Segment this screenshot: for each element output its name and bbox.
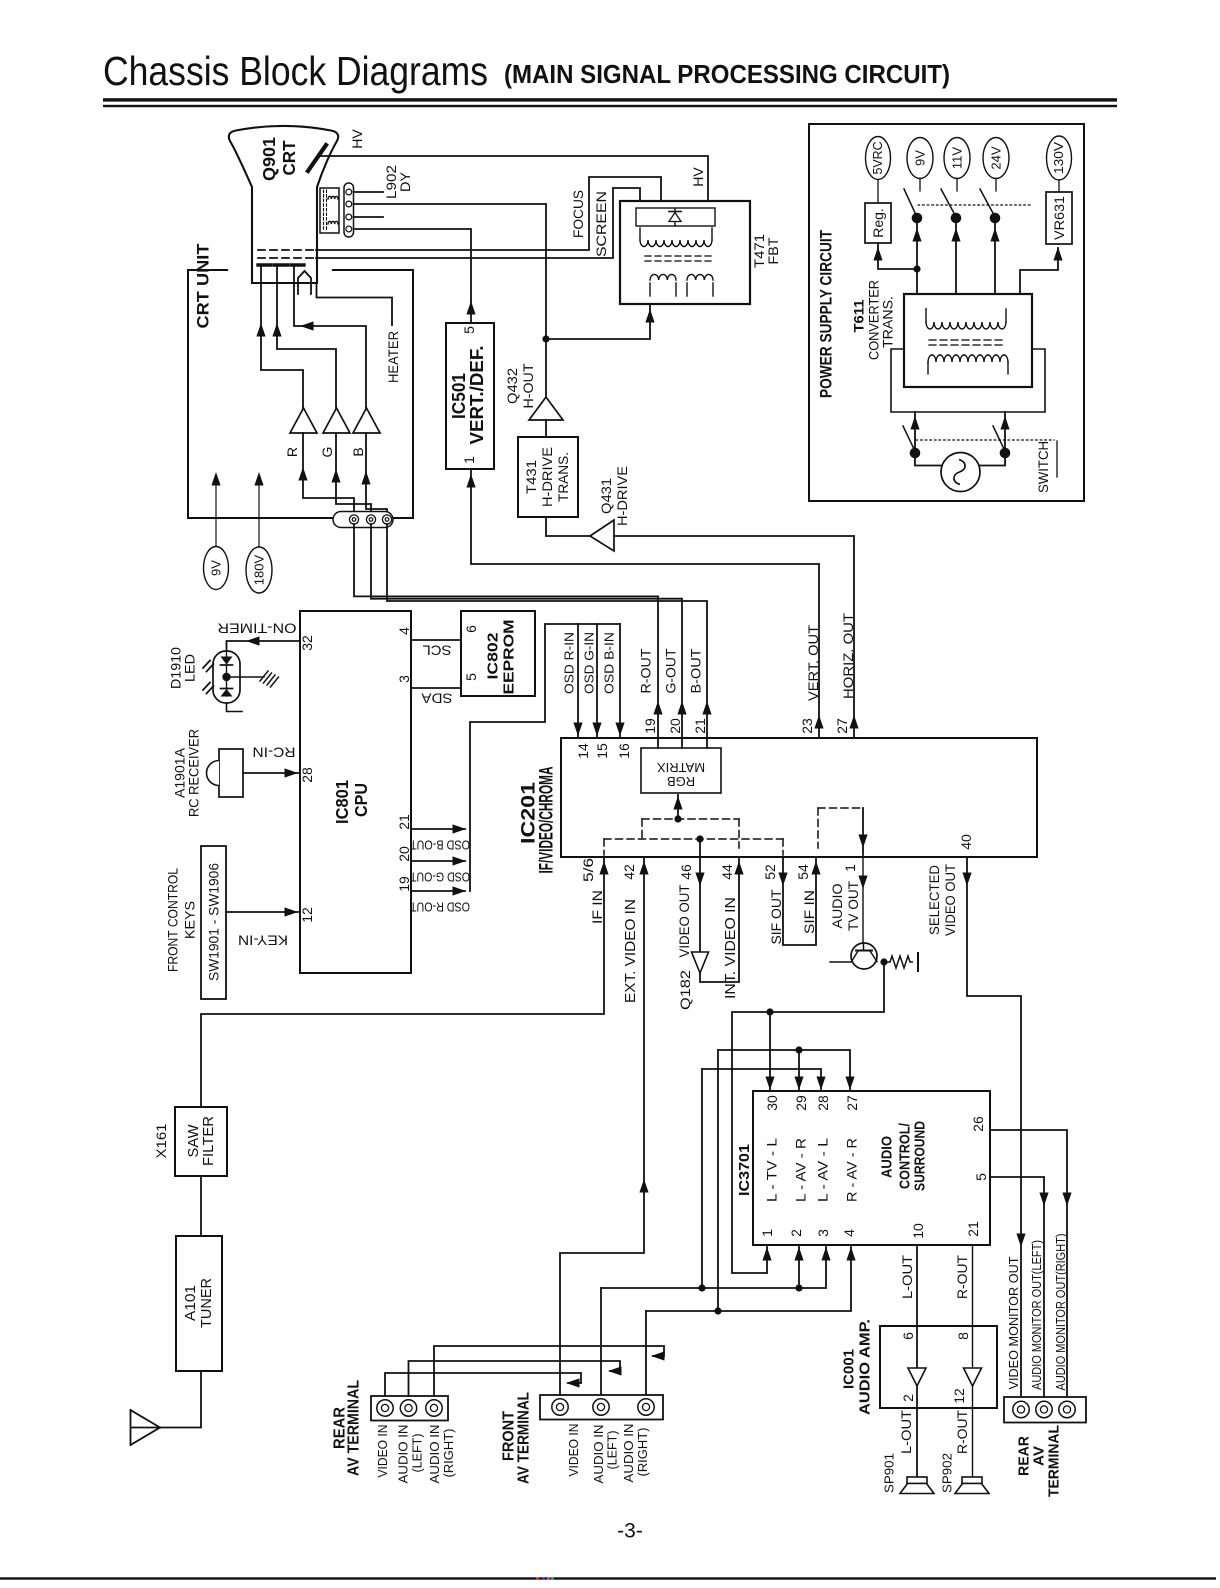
wire amp B input from socket — [366, 433, 387, 513]
svg-text:44: 44 — [719, 864, 735, 880]
wire ON-TIMER from CPU pin32 to LED — [227, 641, 301, 651]
svg-text:RC RECEIVER: RC RECEIVER — [187, 729, 202, 817]
wire junction to FBT input — [546, 304, 650, 339]
svg-text:SP901: SP901 — [882, 1453, 897, 1493]
switch gang dotted link — [918, 204, 1030, 206]
A101 TUNER box — [176, 1236, 222, 1371]
svg-text:H-DRIVE: H-DRIVE — [539, 447, 555, 507]
svg-text:L - AV - L: L - AV - L — [816, 1137, 831, 1202]
wire pin21 R-OUT to IC001 — [972, 1245, 974, 1477]
svg-text:B-OUT: B-OUT — [689, 649, 704, 694]
svg-text:TRANS.: TRANS. — [881, 296, 896, 348]
T611 secondary winding — [925, 309, 927, 322]
svg-text:R - AV - R: R - AV - R — [845, 1138, 860, 1202]
svg-text:2: 2 — [788, 1229, 804, 1237]
wire OSD R-OUT CPU pin19 — [411, 890, 465, 892]
title double rule — [103, 98, 1117, 101]
svg-text:SCL: SCL — [422, 643, 452, 658]
svg-text:27: 27 — [834, 718, 850, 734]
front video jack — [552, 1399, 568, 1415]
wire OSD G-OUT CPU pin20 — [411, 860, 465, 862]
wire pin10 L-OUT to IC001 — [916, 1245, 918, 1477]
wire OSD R-IN drop to IC201 pin14 — [577, 624, 579, 738]
yoke coil top — [328, 196, 338, 199]
video monitor jack — [1013, 1401, 1029, 1417]
svg-text:12: 12 — [951, 1388, 967, 1404]
node 11V out — [944, 138, 970, 179]
wire branch pin29 — [798, 1050, 800, 1090]
svg-text:21: 21 — [396, 814, 412, 830]
AC source — [941, 453, 980, 492]
svg-text:54: 54 — [795, 864, 811, 880]
svg-text:AUDIO: AUDIO — [879, 1136, 896, 1178]
svg-text:AV TERMINAL: AV TERMINAL — [346, 1380, 363, 1476]
antenna — [130, 1410, 132, 1445]
svg-text:EXT. VIDEO IN: EXT. VIDEO IN — [623, 899, 639, 1003]
wire regulator input from 9V rail — [878, 243, 917, 269]
svg-text:SAW: SAW — [186, 1124, 202, 1157]
chassis ground hatch — [260, 671, 268, 681]
FBT secondary coil B — [686, 283, 688, 296]
wire 24V from transformer — [994, 218, 996, 294]
wire yoke pin1 stub — [354, 191, 384, 193]
wire audio tv out to Q transistor — [862, 857, 864, 948]
svg-text:24V: 24V — [989, 146, 1004, 169]
wire audio R lower bus — [646, 1247, 851, 1311]
svg-text:L-OUT: L-OUT — [898, 1410, 914, 1454]
node emitter junction — [880, 958, 887, 965]
wire branch to IC3701 pin30 — [769, 1012, 771, 1090]
svg-text:46: 46 — [678, 864, 694, 880]
transformer T611 box — [904, 294, 1032, 387]
wire OSD G-IN drop to IC201 pin15 — [596, 624, 598, 738]
svg-text:VIDEO OUT: VIDEO OUT — [676, 884, 692, 957]
svg-text:T431: T431 — [523, 460, 539, 494]
FBT primary coil — [639, 228, 641, 240]
video amp B — [353, 408, 380, 433]
svg-text:FBT: FBT — [765, 237, 781, 264]
wire HV anode to FBT — [318, 156, 708, 201]
svg-text:12: 12 — [299, 907, 315, 923]
svg-text:SW1901 - SW1906: SW1901 - SW1906 — [207, 863, 222, 981]
wire AV-R net top — [718, 1050, 850, 1090]
yoke coil bottom — [328, 221, 338, 224]
transistor Q431 H-DRIVE — [590, 520, 614, 551]
CRT screen electrode dashes — [258, 257, 316, 259]
svg-text:180V: 180V — [252, 554, 267, 585]
svg-text:SELECTED: SELECTED — [926, 865, 942, 935]
svg-text:KEYS: KEYS — [183, 901, 198, 939]
svg-text:(RIGHT): (RIGHT) — [636, 1428, 650, 1477]
svg-text:Reg.: Reg. — [870, 208, 886, 238]
svg-text:19: 19 — [642, 718, 658, 734]
svg-text:5/6: 5/6 — [580, 858, 596, 882]
wire video out to Q182 — [699, 857, 701, 952]
svg-text:21: 21 — [692, 718, 708, 734]
wire R cathode from amp — [261, 265, 303, 433]
node junction AV-L — [698, 1284, 705, 1291]
svg-text:G: G — [319, 447, 335, 458]
transistor Q182 emitter follower — [692, 952, 709, 973]
wire KEY-IN to CPU pin12 — [226, 911, 300, 913]
svg-text:IF IN: IF IN — [589, 890, 605, 924]
svg-text:AUDIO: AUDIO — [829, 883, 845, 928]
wire yoke drive junction to Q432 — [545, 204, 547, 397]
svg-text:-3-: -3- — [617, 1520, 643, 1543]
svg-text:SWITCH: SWITCH — [1035, 441, 1051, 493]
rear AV terminal box — [371, 1396, 448, 1421]
svg-text:AUDIO IN: AUDIO IN — [592, 1425, 606, 1484]
node junction pin2 — [795, 1284, 802, 1291]
svg-text:AUDIO MONITOR OUT(LEFT): AUDIO MONITOR OUT(LEFT) — [1030, 1240, 1044, 1390]
wire B-OUT to socket — [387, 524, 707, 748]
wire G cathode from amp — [277, 265, 336, 433]
LED diode down — [221, 657, 233, 665]
svg-text:30: 30 — [764, 1095, 780, 1111]
svg-text:AUDIO IN: AUDIO IN — [428, 1425, 442, 1484]
wire focus to FBT — [316, 177, 661, 250]
svg-text:AUDIO MONITOR OUT(RIGHT): AUDIO MONITOR OUT(RIGHT) — [1054, 1234, 1068, 1391]
svg-text:(RIGHT): (RIGHT) — [442, 1429, 456, 1478]
SWITCH label line — [1056, 441, 1058, 477]
LED diode up — [221, 688, 233, 690]
svg-text:Chassis Block Diagrams: Chassis Block Diagrams — [103, 48, 488, 94]
T611 core — [929, 339, 936, 341]
svg-text:SCREEN: SCREEN — [593, 191, 609, 257]
svg-text:FOCUS: FOCUS — [570, 190, 586, 238]
wire 130V to VR631 — [1058, 180, 1060, 192]
svg-text:6: 6 — [463, 625, 479, 633]
svg-text:FILTER: FILTER — [201, 1116, 217, 1166]
rear audio L jack — [400, 1400, 416, 1416]
svg-text:19: 19 — [396, 876, 412, 892]
svg-text:SP902: SP902 — [940, 1453, 955, 1493]
wire 9V rail from transformer — [916, 218, 918, 294]
wire OSD B-OUT CPU pin21 — [411, 828, 465, 830]
switch mains right — [993, 426, 1005, 450]
front control keys SW1901-SW1906 box — [201, 846, 226, 999]
svg-text:L-OUT: L-OUT — [899, 1255, 915, 1299]
wire AC to right switch — [979, 453, 1005, 466]
node junction AV-R — [714, 1307, 721, 1314]
deflection yoke L902 body — [320, 188, 339, 233]
svg-text:H-OUT: H-OUT — [520, 363, 536, 408]
transistor audio TV out buffer — [851, 943, 877, 969]
video amp G — [323, 408, 350, 433]
CRT focus electrode dashes — [258, 249, 316, 251]
wire OSD B-IN drop to IC201 pin16 — [619, 624, 621, 738]
svg-text:VIDEO IN: VIDEO IN — [376, 1425, 390, 1478]
wire audio L lower bus — [601, 1247, 826, 1288]
svg-text:CONVERTER: CONVERTER — [867, 280, 882, 360]
svg-text:TUNER: TUNER — [199, 1278, 215, 1328]
wire rear audio L to front audio L net — [409, 1361, 621, 1396]
svg-text:EEPROM: EEPROM — [501, 620, 518, 695]
svg-text:11V: 11V — [950, 147, 965, 169]
amp R triangle — [964, 1368, 982, 1386]
svg-text:32: 32 — [299, 635, 315, 651]
svg-text:H-DRIVE: H-DRIVE — [614, 466, 630, 526]
svg-text:4: 4 — [396, 627, 412, 635]
FBT core dashes — [645, 255, 651, 257]
svg-text:10: 10 — [910, 1223, 926, 1239]
VR631 box — [1046, 192, 1072, 244]
wire rear audio R to front audio R net — [434, 1346, 664, 1396]
svg-text:VR631: VR631 — [1051, 196, 1067, 240]
wire LED cathode stub — [227, 703, 243, 712]
svg-text:4: 4 — [841, 1229, 857, 1237]
svg-text:42: 42 — [621, 864, 637, 880]
svg-text:9V: 9V — [209, 560, 224, 576]
wire EXT VIDEO IN from front AV video jack — [560, 857, 644, 1395]
svg-text:130V: 130V — [1052, 141, 1066, 174]
wire G-OUT to socket — [371, 524, 682, 748]
svg-text:26: 26 — [970, 1116, 986, 1132]
front audio L jack — [593, 1399, 609, 1415]
switch gang dotted link mains — [916, 439, 1054, 441]
wire RC-IN to CPU pin28 — [243, 772, 300, 774]
wire yoke pin2 vertical deflection feed — [354, 203, 547, 205]
svg-text:CPU: CPU — [351, 783, 371, 817]
svg-text:Q182: Q182 — [677, 970, 693, 1010]
transistor Q432 H-OUT amp — [529, 397, 563, 420]
svg-text:20: 20 — [667, 718, 683, 734]
arrow into IC501 pin5 — [466, 301, 475, 315]
svg-text:OSD R-IN: OSD R-IN — [562, 632, 577, 694]
svg-text:IF/VIDEO/CHROMA: IF/VIDEO/CHROMA — [537, 766, 558, 873]
wire rear video to front video net — [385, 1373, 581, 1396]
svg-text:L - AV - R: L - AV - R — [794, 1138, 809, 1202]
rear video jack — [377, 1400, 393, 1416]
wire Q432 to T431 — [545, 420, 547, 437]
node junction to RGB matrix — [674, 815, 681, 822]
wire AC to left switch — [915, 453, 942, 466]
wire antenna to tuner — [131, 1371, 202, 1428]
svg-text:AUDIO IN: AUDIO IN — [397, 1425, 411, 1484]
wire selected video out to rear monitor jack — [967, 857, 1021, 1397]
svg-text:OSD R-OUT: OSD R-OUT — [410, 900, 470, 915]
IC801 CPU box — [300, 611, 411, 973]
svg-text:D1910: D1910 — [169, 647, 184, 689]
CRT UNIT enclosure box — [188, 270, 413, 518]
switch mains left — [903, 426, 915, 450]
svg-text:RC-IN: RC-IN — [253, 745, 296, 760]
wire pin5 audio monitor left — [990, 1177, 1044, 1397]
T611 primary winding — [928, 355, 1008, 362]
wire into RGB matrix — [677, 795, 679, 819]
wire screen to FBT — [316, 188, 640, 258]
svg-text:A101: A101 — [183, 1285, 199, 1321]
svg-text:3: 3 — [815, 1229, 831, 1237]
svg-text:OSD B-IN: OSD B-IN — [602, 632, 617, 694]
svg-text:20: 20 — [396, 846, 412, 862]
svg-text:9V: 9V — [913, 150, 928, 166]
svg-text:OSD G-OUT: OSD G-OUT — [410, 870, 470, 885]
wire 180V into CRT unit — [258, 477, 260, 546]
speaker SP901 — [907, 1477, 927, 1484]
svg-text:VIDEO MONITOR OUT: VIDEO MONITOR OUT — [1007, 1256, 1021, 1389]
svg-text:R-OUT: R-OUT — [954, 1255, 970, 1299]
speaker SP902 — [962, 1477, 982, 1484]
wire R-OUT to socket — [354, 524, 658, 748]
wire TV audio to IC3701 — [732, 962, 884, 1273]
wire OSD bus — [470, 624, 620, 891]
wire IC501 pin1 vert out to IC201 pin23 — [471, 469, 819, 738]
wire 11V from transformer — [955, 218, 957, 294]
svg-text:IC3701: IC3701 — [737, 1144, 753, 1196]
FBT diode block — [636, 208, 715, 226]
svg-text:ON-TIMER: ON-TIMER — [217, 621, 296, 636]
switch SW 24V — [995, 179, 997, 192]
wire front audio L jack up — [600, 1288, 602, 1395]
svg-text:HORIZ. OUT: HORIZ. OUT — [840, 613, 856, 699]
CRT cathode stubs R G B — [258, 263, 271, 266]
wire horiz out from IC201 pin27 to Q431 — [614, 536, 854, 738]
LED light ticks — [203, 661, 210, 669]
svg-text:HV: HV — [349, 129, 365, 149]
IC501 vertical deflection IC — [446, 323, 494, 469]
svg-text:5: 5 — [461, 326, 477, 334]
front AV terminal box — [540, 1395, 663, 1420]
svg-text:VIDEO OUT: VIDEO OUT — [942, 864, 958, 936]
svg-text:15: 15 — [594, 743, 610, 759]
resistor end terminal — [917, 953, 919, 971]
svg-text:TERMINAL: TERMINAL — [1046, 1425, 1063, 1497]
node junction TV audio — [766, 1008, 773, 1015]
svg-text:21: 21 — [965, 1221, 981, 1237]
audio monitor R jack — [1059, 1401, 1075, 1417]
svg-text:23: 23 — [799, 718, 815, 734]
flyback transformer T471 box — [620, 201, 750, 304]
LED centre node — [222, 673, 230, 681]
power supply circuit enclosure — [809, 124, 1084, 501]
video amp R — [290, 408, 317, 433]
FBT secondary coil A — [649, 283, 651, 296]
node junction video out — [696, 835, 703, 842]
wire yoke pin4 to IC501 pin5 — [354, 229, 472, 323]
svg-text:OSD B-OUT: OSD B-OUT — [410, 838, 470, 853]
svg-text:14: 14 — [575, 743, 591, 759]
front audio R jack — [638, 1399, 654, 1415]
svg-text:CRT UNIT: CRT UNIT — [194, 243, 213, 329]
svg-text:1: 1 — [759, 1229, 775, 1237]
svg-text:OSD G-IN: OSD G-IN — [582, 632, 597, 694]
RC receiver A1901A body — [219, 749, 243, 797]
svg-text:IC802: IC802 — [485, 633, 502, 680]
IC001 AUDIO AMP box — [880, 1326, 997, 1408]
svg-text:8: 8 — [955, 1332, 971, 1340]
svg-text:G-OUT: G-OUT — [664, 649, 679, 694]
svg-text:28: 28 — [299, 767, 315, 783]
svg-text:(MAIN SIGNAL PROCESSING CIRCUI: (MAIN SIGNAL PROCESSING CIRCUIT) — [504, 61, 950, 89]
svg-text:Q432: Q432 — [504, 368, 520, 404]
node 180V supply — [246, 547, 272, 593]
svg-text:A1901A: A1901A — [173, 748, 188, 798]
CRT socket connector — [333, 512, 393, 528]
svg-text:DY: DY — [397, 171, 413, 192]
node junction pin29 — [795, 1046, 802, 1053]
svg-text:HV: HV — [690, 167, 706, 187]
wire Q182 out to pin 44 — [700, 857, 739, 982]
wire SCL CPU pin4 to IC802 — [411, 639, 461, 641]
wire transistor base stub — [830, 961, 851, 963]
wire VR631 from transformer — [1020, 248, 1058, 294]
wire amp G input from socket — [336, 433, 371, 513]
svg-text:HEATER: HEATER — [385, 331, 401, 383]
diode symbol — [674, 209, 676, 227]
node 5VRC — [866, 137, 891, 180]
wire internal audio to pin1 — [862, 808, 864, 855]
primary frame bracket — [891, 349, 1045, 412]
svg-text:POWER SUPPLY CIRCUIT: POWER SUPPLY CIRCUIT — [817, 230, 836, 398]
svg-text:SIF OUT: SIF OUT — [768, 889, 784, 944]
svg-text:40: 40 — [958, 834, 974, 850]
svg-text:INT. VIDEO IN: INT. VIDEO IN — [723, 897, 739, 999]
svg-text:5: 5 — [463, 673, 479, 681]
svg-text:3: 3 — [396, 675, 412, 683]
bottom page edge line — [0, 1577, 1216, 1579]
svg-text:IC501: IC501 — [449, 373, 469, 419]
audio monitor L jack — [1036, 1401, 1052, 1417]
T431 H-drive transformer — [518, 437, 578, 517]
svg-text:Q901: Q901 — [259, 137, 279, 181]
IC802 EEPROM box — [461, 611, 535, 696]
svg-text:AUDIO AMP.: AUDIO AMP. — [857, 1319, 874, 1415]
wire front audio R jack up — [645, 1311, 647, 1395]
svg-text:2: 2 — [900, 1394, 916, 1402]
wire mains feed right — [1004, 412, 1006, 453]
svg-text:1: 1 — [842, 864, 858, 872]
svg-text:6: 6 — [900, 1332, 916, 1340]
svg-text:SDA: SDA — [422, 691, 453, 706]
svg-text:27: 27 — [844, 1095, 860, 1111]
wire tuner to SAW filter — [200, 1176, 202, 1236]
wire AV-L net top — [702, 1069, 821, 1090]
svg-text:SIF IN: SIF IN — [801, 890, 817, 934]
node 130V out — [1047, 136, 1072, 180]
wire to pin46 inside — [699, 839, 701, 857]
node junction on 9V rail — [913, 265, 920, 272]
dashed internal audio route — [817, 808, 819, 848]
wire 5VRC to regulator — [877, 180, 879, 203]
wire branch pin2 — [798, 1247, 800, 1288]
svg-text:B: B — [350, 447, 366, 456]
svg-text:(LEFT): (LEFT) — [411, 1434, 425, 1473]
yoke connector pillar — [344, 183, 354, 237]
svg-text:VERT. OUT: VERT. OUT — [805, 625, 821, 701]
wire yoke pin3 stub — [354, 216, 384, 218]
amp L triangle — [908, 1368, 926, 1386]
wire AV-R net to audio jack column — [717, 1050, 719, 1311]
resistor to ground — [884, 961, 890, 963]
svg-text:FRONT CONTROL: FRONT CONTROL — [166, 868, 181, 972]
svg-text:5: 5 — [973, 1173, 989, 1181]
svg-text:TV OUT: TV OUT — [845, 881, 861, 931]
dashed internal video route upper — [642, 818, 739, 820]
svg-text:52: 52 — [762, 864, 778, 880]
svg-text:KEY-IN: KEY-IN — [238, 933, 288, 948]
svg-text:TRANS.: TRANS. — [555, 452, 571, 502]
wire T431 to Q431 — [546, 517, 590, 536]
wire 9V into CRT unit — [215, 477, 217, 546]
IC201 IF/VIDEO/CHROMA box — [561, 738, 1037, 857]
wire mains feed left — [914, 412, 916, 453]
svg-text:L - TV - L: L - TV - L — [765, 1137, 780, 1202]
svg-text:VERT./DEF.: VERT./DEF. — [467, 346, 487, 445]
rear audio R jack — [426, 1400, 442, 1416]
rear output terminal box — [1004, 1397, 1086, 1423]
CRT anode cap stroke — [308, 145, 326, 171]
